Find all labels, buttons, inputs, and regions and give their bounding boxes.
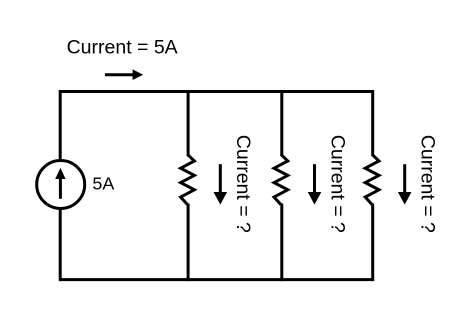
wire: branch 2 vertical (top stub) — [280, 90, 283, 156]
arrow: top current direction arrow — [105, 69, 143, 80]
wire: left vertical wire — [59, 90, 62, 281]
arrow: branch 2 current (down) — [308, 164, 322, 204]
wire: branch 2 vertical (bottom stub) — [280, 204, 283, 282]
arrow: branch 1 current (down) — [214, 164, 228, 204]
svg-text:Current = ?: Current = ? — [327, 135, 349, 233]
svg-text:Current = ?: Current = ? — [417, 135, 439, 233]
svg-text:Current = ?: Current = ? — [232, 135, 254, 233]
wire: branch 1 vertical (bottom stub) — [187, 204, 190, 282]
wire: right vertical wire (bottom stub) — [371, 204, 374, 282]
current source arrow (up) — [55, 168, 65, 199]
wire: bottom horizontal wire — [60, 278, 373, 281]
resistor R1 — [181, 154, 195, 204]
svg-text:5A: 5A — [92, 174, 114, 194]
svg-text:Current = 5A: Current = 5A — [67, 37, 178, 59]
arrow: branch 3 current (down) — [398, 164, 412, 204]
resistor R2 — [274, 154, 288, 204]
wire: branch 1 vertical (top stub) — [187, 90, 190, 156]
wire: right vertical wire (top stub) — [371, 90, 374, 156]
resistor R3 — [365, 154, 379, 204]
wire: top horizontal wire — [60, 90, 373, 93]
current source I1 (circle) — [37, 161, 85, 209]
